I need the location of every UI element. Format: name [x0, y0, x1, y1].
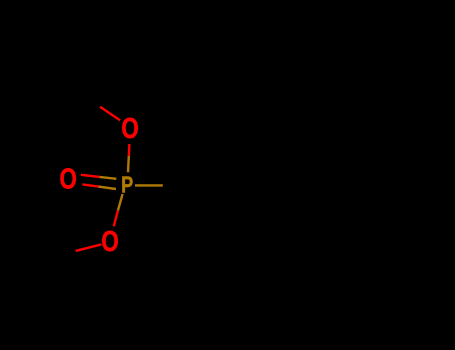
svg-text:O: O — [121, 113, 138, 144]
svg-text:P: P — [121, 172, 133, 198]
svg-text:O: O — [59, 164, 76, 195]
svg-text:O: O — [101, 226, 118, 257]
